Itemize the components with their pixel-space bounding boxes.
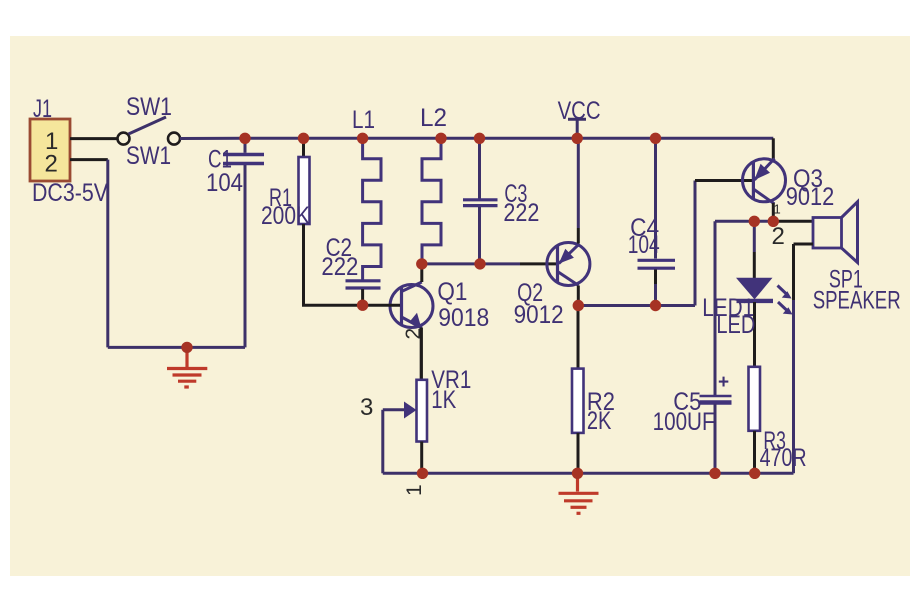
svg-text:Q1: Q1 xyxy=(437,278,467,306)
svg-text:VCC: VCC xyxy=(558,97,601,125)
svg-text:L2: L2 xyxy=(420,104,447,132)
svg-text:+: + xyxy=(718,372,729,393)
svg-text:DC3-5V: DC3-5V xyxy=(32,179,108,207)
svg-text:2K: 2K xyxy=(587,407,612,435)
svg-text:200K: 200K xyxy=(261,202,310,230)
svg-text:104: 104 xyxy=(628,231,660,259)
svg-text:9012: 9012 xyxy=(786,183,835,211)
svg-text:3: 3 xyxy=(360,394,373,421)
svg-text:100UF: 100UF xyxy=(653,408,715,436)
svg-text:J1: J1 xyxy=(33,95,52,123)
svg-text:2: 2 xyxy=(772,223,785,250)
svg-text:SPEAKER: SPEAKER xyxy=(813,287,901,315)
svg-text:222: 222 xyxy=(503,199,539,227)
svg-text:104: 104 xyxy=(206,169,243,197)
svg-text:1K: 1K xyxy=(431,386,456,414)
svg-text:9018: 9018 xyxy=(438,304,489,332)
svg-text:222: 222 xyxy=(321,253,358,281)
svg-text:470R: 470R xyxy=(760,444,807,472)
svg-text:2: 2 xyxy=(402,328,425,340)
svg-text:1: 1 xyxy=(774,202,781,217)
svg-text:2: 2 xyxy=(45,151,58,178)
svg-text:SW1: SW1 xyxy=(126,93,172,121)
svg-text:L1: L1 xyxy=(352,106,375,134)
svg-text:SW1: SW1 xyxy=(126,142,171,170)
svg-text:1: 1 xyxy=(403,484,426,496)
svg-text:LED: LED xyxy=(716,311,755,339)
svg-text:9012: 9012 xyxy=(514,301,564,329)
